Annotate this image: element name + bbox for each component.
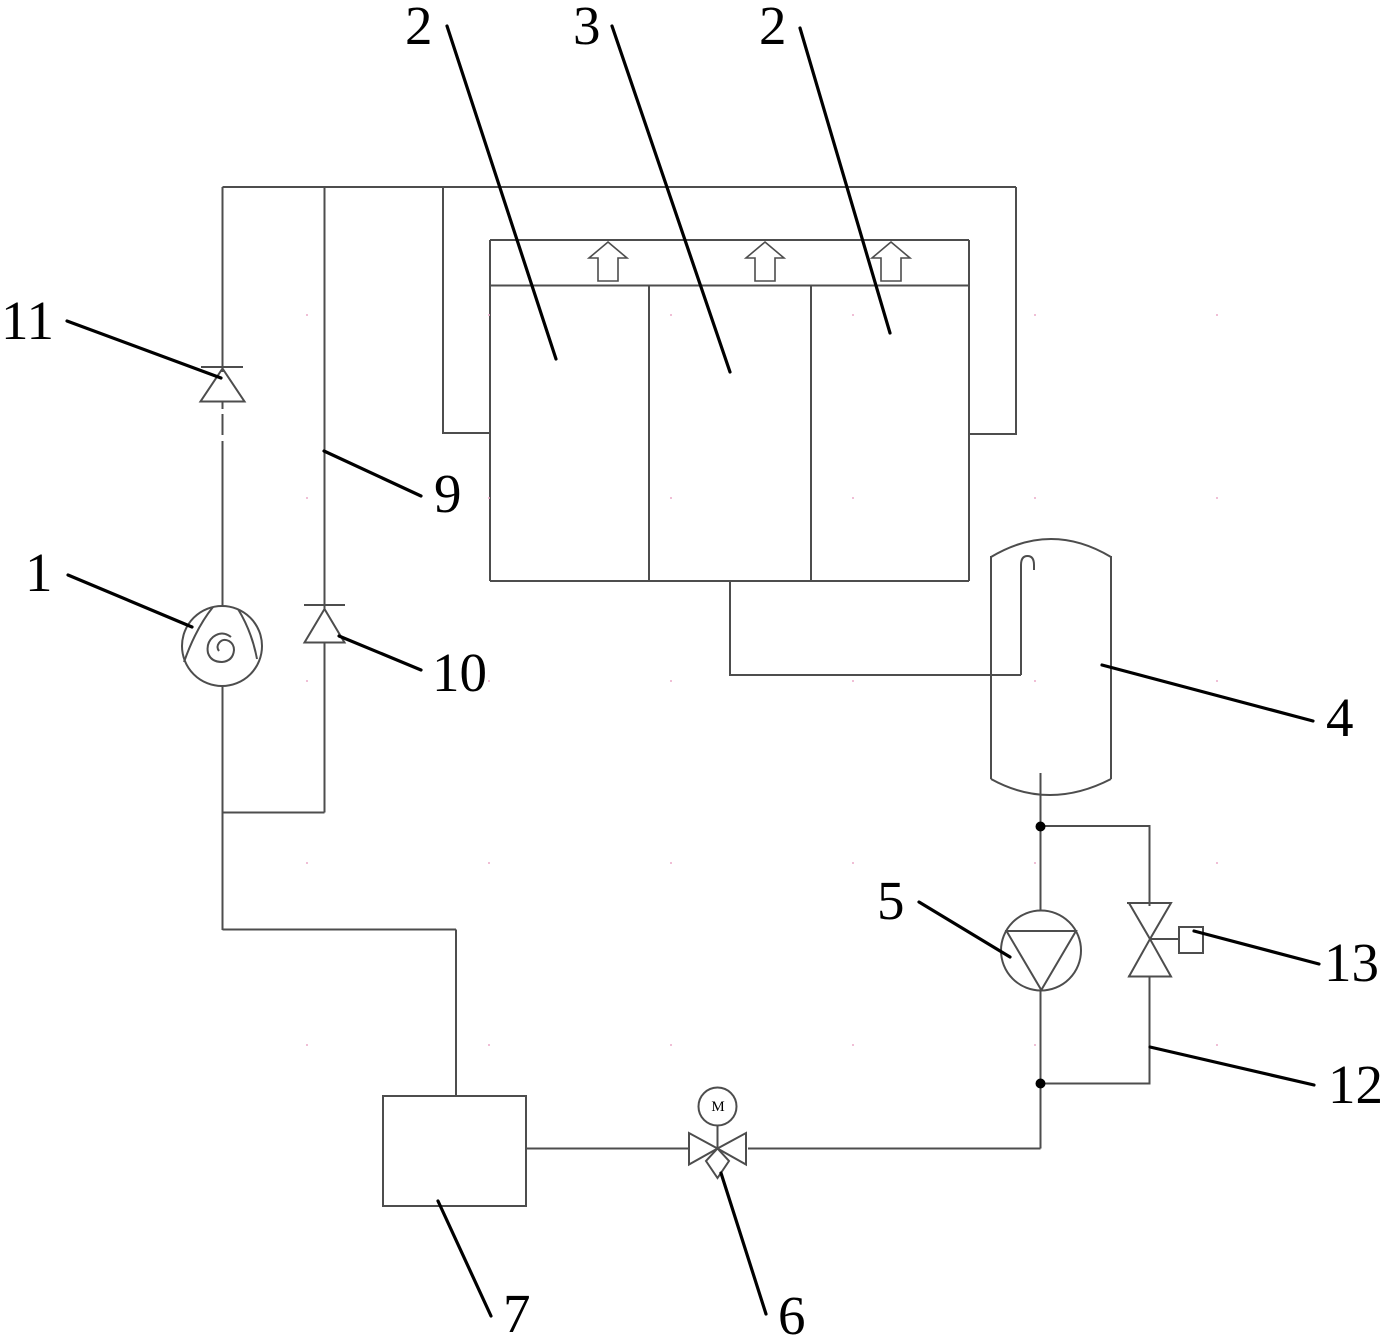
wire tank outlet xyxy=(1040,773,1042,827)
leader 7 xyxy=(438,1201,491,1316)
junction dot upper xyxy=(1036,822,1046,832)
wire to valve 6 xyxy=(748,1148,1041,1150)
wire line 9 lower xyxy=(324,643,326,813)
scan artifact pink dot grid xyxy=(306,314,1218,1046)
leader 11 xyxy=(67,321,221,378)
tank 4 body xyxy=(990,556,992,779)
pump 5 xyxy=(1001,911,1081,991)
leader 1 xyxy=(68,575,192,627)
svg-text:4: 4 xyxy=(1326,687,1354,748)
unit right wall xyxy=(968,240,970,581)
divider 1 xyxy=(648,286,650,582)
leader 10 xyxy=(339,636,421,670)
svg-text:11: 11 xyxy=(1,290,54,351)
svg-text:3: 3 xyxy=(573,0,601,56)
wire outer duct top xyxy=(223,186,1017,188)
svg-text:M: M xyxy=(711,1099,724,1115)
wire left main upper xyxy=(222,187,224,372)
leader 2b xyxy=(800,28,890,333)
svg-text:13: 13 xyxy=(1324,932,1379,993)
unit left wall xyxy=(489,240,491,581)
pump 1 (fan) xyxy=(182,606,262,686)
svg-text:7: 7 xyxy=(503,1283,531,1341)
wire outer duct inner-left xyxy=(443,187,490,433)
svg-text:5: 5 xyxy=(877,870,905,931)
box 7 xyxy=(383,1096,526,1206)
svg-text:2: 2 xyxy=(759,0,787,56)
wire box 7 to valve 6 xyxy=(526,1148,689,1150)
leader 9 xyxy=(324,451,421,496)
leader 4 xyxy=(1102,665,1313,721)
valve 13 xyxy=(1127,903,1179,977)
valve 10 xyxy=(304,605,345,643)
svg-text:1: 1 xyxy=(25,542,53,603)
wire line 9 to left main xyxy=(223,812,325,814)
wire valve 13 to lower junction xyxy=(1041,977,1150,1084)
divider 2 xyxy=(810,286,812,582)
svg-text:6: 6 xyxy=(778,1285,806,1341)
svg-text:10: 10 xyxy=(432,642,487,703)
wire line 9 upper xyxy=(324,187,326,609)
arrow up 1 xyxy=(589,242,627,281)
arrow up 3 xyxy=(872,242,910,281)
wire pump 5 outlet xyxy=(1040,991,1042,1084)
svg-text:12: 12 xyxy=(1328,1054,1383,1115)
wire drain from unit xyxy=(730,581,1021,675)
wire left main below valve 11 (dashed stub) xyxy=(222,402,224,409)
wire bottom-left horizontal xyxy=(223,929,457,931)
unit bottom xyxy=(490,580,969,582)
svg-text:2: 2 xyxy=(405,0,433,56)
hood bottom xyxy=(490,285,969,287)
leader 12 xyxy=(1150,1047,1314,1085)
leader 3 xyxy=(612,26,730,372)
valve 6 (motor valve) xyxy=(689,1088,746,1179)
leader 6 xyxy=(721,1173,766,1314)
wire down from lower junction xyxy=(1040,1084,1042,1149)
valve 11 xyxy=(201,367,245,402)
leader 2a xyxy=(447,26,556,359)
wire outer duct right xyxy=(968,187,1016,434)
svg-text:9: 9 xyxy=(434,463,462,524)
junction dot lower xyxy=(1036,1079,1046,1089)
leader 5 xyxy=(919,902,1010,957)
square 13 actuator xyxy=(1179,927,1203,953)
tank 4 dip tube xyxy=(1021,556,1034,675)
arrow up 2 xyxy=(746,242,784,281)
wire left main below pump 1 xyxy=(222,686,224,930)
wire down to box 7 xyxy=(455,930,457,1097)
scrubber unit 2/3 hood top xyxy=(490,239,969,241)
wire branch to valve 13 xyxy=(1041,826,1150,906)
wire pump 5 inlet xyxy=(1040,827,1042,911)
leader 13 xyxy=(1194,931,1319,964)
